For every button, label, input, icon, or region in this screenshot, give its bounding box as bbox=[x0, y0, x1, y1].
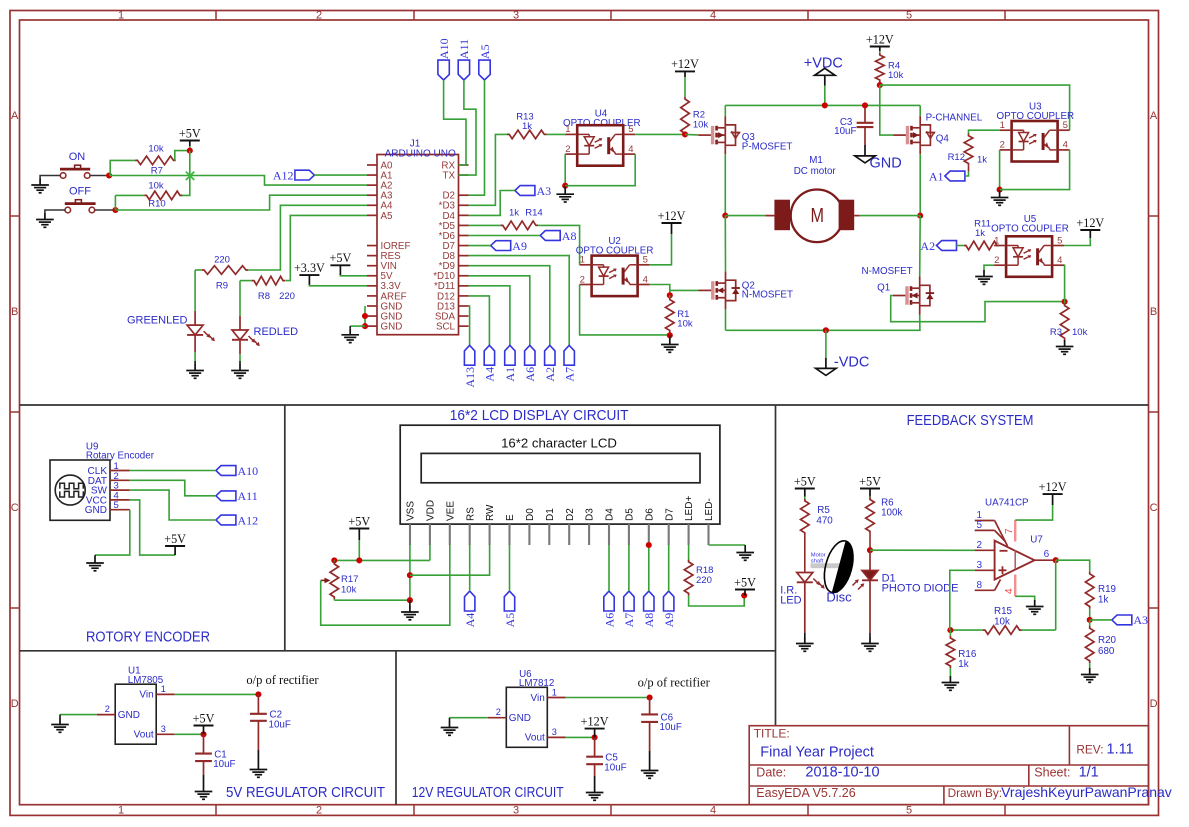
svg-text:A12: A12 bbox=[238, 513, 259, 527]
net flag A4 bbox=[483, 345, 497, 381]
power +VDC bbox=[804, 56, 843, 72]
svg-text:U7: U7 bbox=[1030, 535, 1043, 546]
node +VDC junction bbox=[822, 102, 828, 108]
wire +12V to U2 pin5 bbox=[650, 234, 672, 265]
wire R7 to +5V junction bbox=[175, 151, 190, 161]
svg-text:220: 220 bbox=[279, 291, 295, 302]
svg-text:D2: D2 bbox=[565, 508, 576, 521]
node VSS RW junction bbox=[407, 572, 413, 578]
svg-text:VDD: VDD bbox=[426, 500, 437, 521]
ground at D1 bbox=[861, 637, 879, 651]
wire E to A5 bbox=[509, 545, 511, 591]
svg-text:A11: A11 bbox=[238, 489, 258, 503]
node U4 ground junction bbox=[562, 183, 568, 189]
wire VDC rail bbox=[725, 104, 920, 106]
svg-text:A9: A9 bbox=[512, 239, 527, 253]
wire R9 to A4 row bbox=[249, 205, 367, 270]
svg-text:o/p of rectifier: o/p of rectifier bbox=[246, 673, 319, 687]
node U3 ground junction bbox=[997, 187, 1003, 193]
svg-text:A7: A7 bbox=[563, 367, 577, 382]
node C2 junction bbox=[255, 691, 261, 697]
svg-text:5: 5 bbox=[1057, 235, 1062, 246]
svg-text:DC motor: DC motor bbox=[794, 166, 837, 177]
power +5V at R5 bbox=[794, 474, 816, 496]
wire C3 to GND bbox=[864, 145, 866, 156]
power +5V at rotary bbox=[164, 532, 186, 555]
IC U1 LM7805 bbox=[97, 666, 175, 745]
wire LED- to ground bbox=[709, 544, 746, 546]
svg-text:M: M bbox=[811, 204, 825, 227]
svg-text:220: 220 bbox=[696, 575, 712, 586]
net flag A10 rotary bbox=[216, 464, 258, 478]
wire ON net to Arduino A2 bbox=[109, 176, 367, 186]
svg-text:SCL: SCL bbox=[436, 322, 456, 333]
node +5V LCD junction bbox=[356, 557, 362, 563]
svg-text:1/1: 1/1 bbox=[1079, 765, 1099, 781]
node D1 junction bbox=[867, 547, 873, 553]
svg-text:PHOTO DIODE: PHOTO DIODE bbox=[882, 582, 959, 594]
svg-text:10k: 10k bbox=[888, 70, 904, 81]
resistor R2 10k bbox=[681, 77, 709, 136]
net flag A4 at RS bbox=[463, 591, 477, 627]
ground at U6 bbox=[441, 721, 459, 735]
push button ON bbox=[60, 151, 90, 178]
svg-text:GND: GND bbox=[118, 710, 140, 721]
ground at C1 bbox=[195, 785, 213, 799]
section divider lines bbox=[20, 405, 1149, 805]
svg-text:100k: 100k bbox=[881, 508, 902, 519]
power +5V at U1 bbox=[193, 711, 215, 734]
net flag A9 at D7 bbox=[662, 591, 676, 627]
net flag A13 bbox=[463, 345, 477, 387]
node R2 junction bbox=[682, 131, 688, 137]
svg-text:2: 2 bbox=[1000, 140, 1005, 151]
svg-text:+5V: +5V bbox=[164, 532, 186, 546]
wire D6 to A8 bbox=[648, 545, 650, 591]
node -VDC junction bbox=[823, 327, 829, 333]
svg-text:FEEDBACK SYSTEM: FEEDBACK SYSTEM bbox=[907, 413, 1034, 429]
wire VCC to +5V bbox=[130, 500, 175, 555]
resistor R7 10k bbox=[135, 143, 175, 176]
svg-text:4: 4 bbox=[710, 804, 716, 816]
wire A3 junction to flag bbox=[1090, 619, 1112, 621]
wire R9 down to GREENLED bbox=[194, 270, 196, 311]
svg-text:A: A bbox=[11, 110, 19, 122]
svg-text:2: 2 bbox=[105, 704, 110, 714]
svg-text:R12: R12 bbox=[948, 152, 965, 163]
ground at C5 bbox=[586, 786, 604, 800]
wire Q1 source down bbox=[919, 315, 921, 331]
opto coupler U4 bbox=[563, 109, 641, 129]
wire A11 to TX bbox=[459, 80, 477, 175]
net flag A1 at R12 bbox=[945, 171, 965, 181]
net flag A7 at D5 bbox=[622, 591, 636, 627]
wire D4 to A3 flag bbox=[469, 191, 515, 216]
wire D3 to R13 bbox=[469, 134, 505, 205]
node C5 junction bbox=[592, 734, 598, 740]
svg-text:5: 5 bbox=[1063, 120, 1068, 131]
net flag A10 bbox=[437, 38, 451, 80]
net flag A5 at E bbox=[503, 591, 517, 627]
svg-text:C: C bbox=[11, 502, 19, 514]
svg-text:5: 5 bbox=[628, 124, 633, 135]
wire U3 pin1 to R12 bbox=[969, 130, 1000, 133]
net flag A1 bbox=[503, 345, 517, 381]
wire OFF net to Arduino A3 bbox=[115, 195, 367, 210]
svg-text:o/p of rectifier: o/p of rectifier bbox=[638, 676, 711, 690]
resistor R4 10k bbox=[876, 51, 904, 85]
svg-text:7: 7 bbox=[1004, 528, 1015, 534]
node R1 bottom junction bbox=[667, 332, 673, 338]
svg-text:10k: 10k bbox=[148, 143, 164, 154]
R17 wiper arrow bbox=[321, 578, 331, 584]
label 16*2 LCD DISPLAY CIRCUIT bbox=[450, 408, 629, 424]
net flag A6 bbox=[523, 345, 537, 381]
node +5V R18 junction bbox=[741, 592, 747, 598]
svg-text:ARDUINO UNO: ARDUINO UNO bbox=[385, 148, 456, 159]
svg-text:R9: R9 bbox=[216, 281, 228, 292]
wire SW to A12 bbox=[130, 490, 216, 520]
net flag A11 bbox=[457, 39, 471, 80]
svg-text:EasyEDA V5.7.26: EasyEDA V5.7.26 bbox=[756, 786, 855, 800]
svg-text:1: 1 bbox=[1000, 120, 1005, 131]
net flag A7 bbox=[563, 345, 577, 381]
svg-text:16*2 character LCD: 16*2 character LCD bbox=[501, 436, 617, 451]
svg-text:R14: R14 bbox=[525, 207, 542, 218]
svg-text:16*2 LCD DISPLAY CIRCUIT: 16*2 LCD DISPLAY CIRCUIT bbox=[450, 408, 629, 424]
wire U6 GND to ground bbox=[450, 717, 488, 719]
svg-text:GND: GND bbox=[509, 713, 531, 724]
svg-text:2: 2 bbox=[316, 804, 322, 816]
resistor R14 1k bbox=[500, 207, 543, 229]
svg-text:4: 4 bbox=[1063, 140, 1068, 151]
wire OFF button to ground bbox=[45, 210, 65, 213]
label 12V REGULATOR CIRCUIT bbox=[412, 785, 564, 801]
ground at C2 bbox=[250, 763, 268, 777]
wire DAT to A11 bbox=[130, 480, 216, 496]
resistor R9 220 bbox=[195, 254, 249, 291]
resistor R5 470 bbox=[801, 499, 834, 573]
svg-text:1: 1 bbox=[580, 255, 585, 266]
wire GND to ground symbol bbox=[350, 326, 365, 328]
wire Q3 source to motor bbox=[724, 154, 726, 216]
svg-text:680: 680 bbox=[1098, 646, 1115, 657]
node ON junction bbox=[106, 172, 112, 178]
svg-text:D1: D1 bbox=[545, 508, 556, 521]
svg-text:8: 8 bbox=[977, 580, 983, 591]
resistor R6 100k bbox=[866, 497, 903, 550]
svg-text:A3: A3 bbox=[1133, 613, 1148, 627]
node motor right junction bbox=[917, 213, 923, 219]
wire R18 to +5V bbox=[689, 596, 745, 607]
IC J1 ARDUINO UNO bbox=[367, 138, 469, 334]
svg-text:10k: 10k bbox=[148, 181, 164, 192]
svg-text:Vout: Vout bbox=[525, 733, 545, 744]
wire opamp pin4 to ground bbox=[1015, 596, 1034, 600]
svg-text:R10: R10 bbox=[148, 199, 165, 210]
svg-text:1: 1 bbox=[118, 804, 124, 816]
svg-text:2: 2 bbox=[565, 144, 570, 155]
power +12V at U6 bbox=[581, 714, 609, 737]
svg-text:D4: D4 bbox=[605, 508, 616, 521]
svg-text:+12V: +12V bbox=[1076, 216, 1104, 230]
wire U5 pin5 to +12V bbox=[1064, 238, 1090, 246]
svg-text:Q1: Q1 bbox=[877, 283, 890, 294]
svg-text:10uF: 10uF bbox=[269, 719, 291, 730]
svg-text:1k: 1k bbox=[509, 207, 519, 218]
svg-text:D0: D0 bbox=[525, 508, 536, 521]
svg-text:10k: 10k bbox=[693, 119, 709, 130]
svg-text:R3: R3 bbox=[1050, 327, 1062, 338]
power +12V at U2 pin5 bbox=[658, 209, 686, 234]
wire R12 to A1 flag bbox=[965, 171, 969, 176]
node OFF junction bbox=[112, 207, 118, 213]
svg-text:VrajeshKeyurPawanPranav: VrajeshKeyurPawanPranav bbox=[1001, 784, 1172, 800]
wire +VDC to rail bbox=[824, 86, 826, 106]
capacitor C1 10uF bbox=[195, 734, 212, 785]
push button OFF bbox=[65, 186, 96, 213]
net flag A3 feedback bbox=[1112, 613, 1148, 627]
wire R8 left down to REDLED bbox=[240, 280, 252, 282]
svg-text:R17: R17 bbox=[341, 574, 358, 585]
svg-text:2: 2 bbox=[977, 540, 983, 551]
svg-text:4: 4 bbox=[1057, 255, 1062, 266]
ground at VSS bbox=[409, 600, 411, 605]
potentiometer R17 10k bbox=[330, 560, 358, 600]
wire R13 to U4 pin1 bbox=[564, 133, 567, 135]
svg-text:R19: R19 bbox=[1098, 584, 1116, 595]
svg-text:Vout: Vout bbox=[134, 730, 154, 741]
opto coupler U2 bbox=[576, 236, 654, 257]
node C3 junction bbox=[862, 102, 868, 108]
svg-text:10k: 10k bbox=[994, 617, 1010, 628]
wire VDD rail bbox=[334, 559, 430, 561]
svg-text:Drawn By:: Drawn By: bbox=[948, 786, 1002, 800]
wire D12 to A4 flag bbox=[469, 296, 490, 345]
resistor R13 1k bbox=[504, 111, 566, 138]
wire U3 pin2 to ground bbox=[999, 150, 1001, 190]
diode GREENLED bbox=[194, 311, 196, 325]
wire A10 to RX bbox=[444, 80, 466, 165]
svg-text:D: D bbox=[11, 698, 19, 710]
svg-text:1: 1 bbox=[118, 9, 124, 21]
node +5V junction bbox=[187, 148, 193, 154]
diode I.R. LED bbox=[797, 573, 825, 589]
svg-text:Sheet:: Sheet: bbox=[1034, 766, 1070, 780]
svg-text:+5V: +5V bbox=[734, 575, 756, 589]
ground at C6 bbox=[641, 764, 659, 778]
svg-text:5: 5 bbox=[977, 520, 983, 531]
wire D1 to ground bbox=[869, 580, 871, 637]
svg-text:5: 5 bbox=[114, 500, 119, 511]
svg-text:P-MOSFET: P-MOSFET bbox=[742, 141, 793, 152]
svg-text:TITLE:: TITLE: bbox=[754, 727, 790, 741]
wire GND pin to ground bbox=[95, 510, 130, 555]
svg-text:A7: A7 bbox=[622, 613, 636, 628]
ground at R16 bbox=[942, 676, 960, 690]
wire CLK to A10 bbox=[130, 470, 216, 472]
svg-text:A5: A5 bbox=[503, 613, 517, 628]
power +12V at R2 bbox=[671, 57, 699, 77]
wire U2 pin2 down to R1 bottom bbox=[580, 285, 670, 335]
svg-text:3: 3 bbox=[513, 9, 519, 21]
svg-text:220: 220 bbox=[214, 254, 230, 265]
svg-text:R20: R20 bbox=[1098, 635, 1117, 646]
svg-text:P-CHANNEL: P-CHANNEL bbox=[926, 113, 983, 124]
net flag A3 at D4 bbox=[515, 184, 551, 198]
wire U1 Vin to C2 bbox=[175, 693, 259, 695]
power +12V at opamp bbox=[1039, 480, 1067, 505]
transistor Q2 N-MOSFET bbox=[699, 271, 740, 309]
wire A12 flag to A1 bbox=[314, 174, 367, 176]
svg-text:VSS: VSS bbox=[406, 501, 417, 521]
svg-text:A2: A2 bbox=[920, 239, 935, 253]
svg-text:A3: A3 bbox=[537, 184, 552, 198]
wire crossing marker bbox=[186, 172, 194, 180]
wire Q4 source to motor right bbox=[919, 154, 921, 216]
svg-text:10k: 10k bbox=[677, 319, 693, 330]
power +5V at LCD bbox=[348, 514, 370, 540]
svg-text:+12V: +12V bbox=[581, 714, 609, 728]
svg-text:470: 470 bbox=[816, 516, 833, 527]
svg-text:R5: R5 bbox=[817, 505, 830, 516]
wire U4 pin4 loop bbox=[565, 154, 635, 186]
svg-text:A10: A10 bbox=[238, 464, 259, 478]
svg-text:10uF: 10uF bbox=[834, 126, 856, 137]
wire U1 GND to ground bbox=[60, 714, 97, 716]
wire OFF button to junction bbox=[95, 209, 116, 211]
svg-text:Disc: Disc bbox=[826, 590, 852, 605]
svg-text:A6: A6 bbox=[523, 367, 537, 382]
wire Q1 drain to motor junction bbox=[919, 216, 922, 277]
svg-text:A12: A12 bbox=[273, 168, 294, 182]
power -VDC bbox=[816, 368, 836, 375]
svg-text:ON: ON bbox=[69, 151, 86, 163]
wire D6 to A8 flag bbox=[469, 235, 541, 237]
resistor R15 10k bbox=[950, 606, 1055, 634]
ground at ON button bbox=[31, 179, 49, 193]
resistor R3 10k bbox=[1050, 302, 1088, 341]
svg-text:A6: A6 bbox=[602, 613, 616, 628]
power +12V at R4 bbox=[866, 32, 894, 51]
svg-text:A8: A8 bbox=[562, 229, 577, 243]
svg-text:2: 2 bbox=[316, 9, 322, 21]
wire motor right terminal bbox=[860, 215, 921, 217]
svg-text:REDLED: REDLED bbox=[254, 326, 299, 338]
svg-text:TX: TX bbox=[442, 170, 455, 181]
net flag A9 at D7 bbox=[491, 239, 527, 253]
svg-text:4: 4 bbox=[628, 144, 633, 155]
svg-text:Q4: Q4 bbox=[936, 134, 950, 145]
svg-text:LED+: LED+ bbox=[684, 496, 695, 521]
svg-text:+5V: +5V bbox=[193, 711, 215, 725]
wire D5 to A7 bbox=[628, 545, 630, 591]
svg-text:GREENLED: GREENLED bbox=[127, 315, 188, 327]
net flag A8 at D6 bbox=[540, 229, 576, 243]
wire U2 pin4 to R1 top bbox=[650, 285, 670, 296]
capacitor C3 10uF bbox=[857, 105, 874, 145]
ground at opamp bbox=[1026, 600, 1044, 614]
svg-text:10uF: 10uF bbox=[660, 722, 682, 733]
svg-text:1k: 1k bbox=[958, 659, 968, 670]
wire +5V stem bbox=[189, 146, 191, 151]
ground at OFF button bbox=[36, 213, 54, 227]
wire -VDC stem bbox=[825, 330, 827, 368]
svg-text:LM7805: LM7805 bbox=[128, 675, 164, 686]
wire R7 branch up bbox=[110, 160, 136, 175]
ground at rotary bbox=[86, 557, 104, 571]
resistor R10 10k bbox=[115, 181, 182, 210]
svg-text:2018-10-10: 2018-10-10 bbox=[805, 765, 879, 781]
wire motor left terminal bbox=[725, 215, 765, 217]
wire IR LED to ground bbox=[804, 582, 806, 637]
svg-text:A13: A13 bbox=[463, 367, 477, 388]
wire Q2 drain to motor junction bbox=[724, 216, 726, 272]
wire RS to A4 bbox=[469, 545, 471, 591]
ground at U1 bbox=[51, 718, 69, 732]
svg-text:1k: 1k bbox=[522, 121, 532, 132]
svg-text:A2: A2 bbox=[543, 367, 557, 382]
svg-text:RS: RS bbox=[465, 507, 476, 521]
svg-text:A4: A4 bbox=[463, 613, 477, 628]
svg-text:4: 4 bbox=[1004, 588, 1015, 594]
svg-text:2: 2 bbox=[580, 274, 585, 285]
svg-text:10k: 10k bbox=[1072, 327, 1088, 338]
wire R10 left down to OFF junction bbox=[114, 195, 116, 210]
resistor R18 220 bbox=[688, 545, 690, 562]
svg-text:6: 6 bbox=[1044, 549, 1050, 560]
wire VSS down bbox=[409, 545, 411, 600]
svg-text:4: 4 bbox=[710, 9, 716, 21]
opto coupler U3 bbox=[996, 102, 1074, 123]
wire R17 bottom to VSS bbox=[334, 599, 410, 601]
net flag A2 bbox=[937, 241, 957, 251]
svg-text:+5V: +5V bbox=[794, 474, 816, 488]
svg-text:1k: 1k bbox=[975, 228, 985, 239]
label FEEDBACK SYSTEM bbox=[907, 413, 1034, 429]
svg-text:-VDC: -VDC bbox=[834, 355, 869, 371]
ground at LED- bbox=[736, 546, 754, 560]
svg-text:+5V: +5V bbox=[179, 126, 201, 140]
ground at R20 bbox=[1081, 668, 1099, 682]
capacitor C6 10uF bbox=[641, 698, 658, 765]
motor shaft bar bbox=[811, 553, 842, 569]
wire VSS to RW bbox=[410, 545, 490, 575]
svg-text:GND: GND bbox=[381, 322, 403, 333]
disc bbox=[819, 538, 858, 596]
wire U6 Vin to C6 bbox=[566, 697, 650, 699]
svg-text:A1: A1 bbox=[929, 169, 944, 183]
svg-text:3: 3 bbox=[161, 724, 166, 734]
svg-text:3: 3 bbox=[552, 727, 557, 737]
svg-text:Vin: Vin bbox=[139, 690, 153, 701]
svg-text:1k: 1k bbox=[1098, 595, 1108, 606]
svg-text:4: 4 bbox=[643, 274, 648, 285]
svg-text:1: 1 bbox=[565, 124, 570, 135]
ground at R3 bbox=[1056, 340, 1074, 354]
label ROTORY ENCODER bbox=[86, 630, 210, 646]
svg-text:D5: D5 bbox=[625, 508, 636, 521]
IC U6 LM7812 bbox=[488, 669, 566, 748]
svg-text:A11: A11 bbox=[457, 39, 471, 59]
svg-text:D: D bbox=[1150, 698, 1158, 710]
wire pin3 net bbox=[950, 570, 975, 630]
resistor R19 1k bbox=[1085, 566, 1116, 620]
power +3.3V at Arduino bbox=[294, 261, 325, 285]
svg-text:10k: 10k bbox=[341, 585, 357, 596]
wire A2 flag to R11 bbox=[957, 245, 964, 247]
svg-text:VEE: VEE bbox=[445, 501, 456, 521]
